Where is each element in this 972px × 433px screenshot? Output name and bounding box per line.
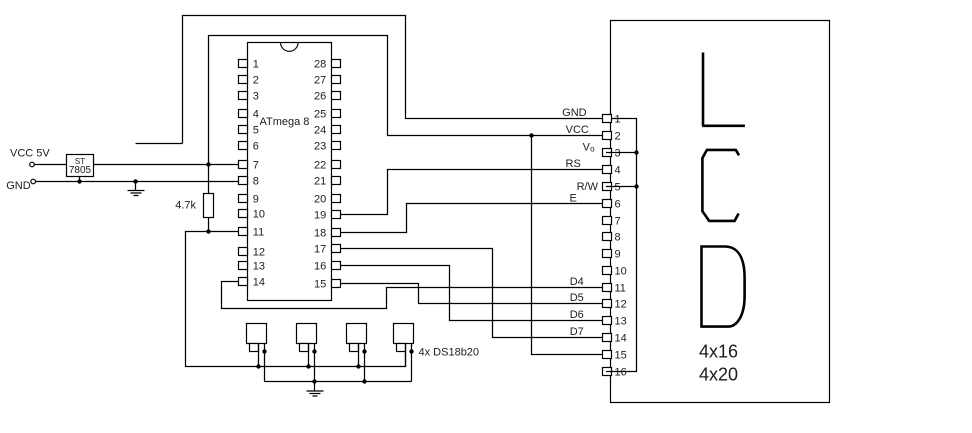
svg-text:16: 16 <box>615 366 627 378</box>
svg-text:6: 6 <box>615 198 621 210</box>
svg-text:28: 28 <box>314 58 326 70</box>
svg-text:9: 9 <box>253 193 259 205</box>
svg-text:21: 21 <box>314 175 326 187</box>
junction gnd rail sensor 2 <box>312 379 316 383</box>
svg-text:20: 20 <box>314 193 326 205</box>
svg-text:7: 7 <box>253 159 259 171</box>
wire pin 18 to LCD E <box>341 204 603 233</box>
svg-text:27: 27 <box>314 74 326 86</box>
wire pin 16 to LCD D6 <box>341 266 603 321</box>
svg-text:10: 10 <box>253 208 265 220</box>
wire pin 11 DQ bus to sensors <box>186 232 406 367</box>
wire VCC riser top rail to LCD pin 2 <box>209 36 603 165</box>
svg-text:14: 14 <box>253 276 265 288</box>
wire pin 14 to LCD D4 <box>222 282 603 309</box>
sensor DS18B20 #1 tab <box>250 344 259 352</box>
svg-text:11: 11 <box>253 226 264 238</box>
svg-text:ATmega 8: ATmega 8 <box>260 116 310 128</box>
svg-text:25: 25 <box>314 108 326 120</box>
svg-text:16: 16 <box>314 260 326 272</box>
junction lcd rail pin 5 <box>634 184 638 188</box>
svg-text:4: 4 <box>253 108 259 120</box>
wire lcd internal gnd rail <box>606 119 637 372</box>
svg-text:24: 24 <box>314 124 326 136</box>
lcd module body <box>611 21 830 403</box>
mcu U1 left pin squares 1-14 <box>239 60 248 286</box>
sensor DS18B20 #4 tab <box>397 344 406 352</box>
svg-text:3: 3 <box>253 90 259 102</box>
wire 7805 ground pin <box>79 177 81 182</box>
svg-text:26: 26 <box>314 90 326 102</box>
junction lcd rail pin 3 <box>634 150 638 154</box>
svg-text:D6: D6 <box>570 309 584 321</box>
junction sensor #3 pin joint <box>362 349 366 353</box>
lcd pin numbers <box>615 113 627 378</box>
svg-text:14: 14 <box>615 332 627 344</box>
lcd letter D <box>700 246 744 327</box>
svg-text:22: 22 <box>314 159 326 171</box>
junction sensor #1 pin joint <box>262 349 266 353</box>
sensor DS18B20 #2 tab <box>300 344 309 352</box>
svg-text:2: 2 <box>615 130 621 142</box>
sensor #1 DQ pin <box>258 344 260 367</box>
svg-text:D5: D5 <box>570 292 584 304</box>
sensor DS18B20 #1 body <box>247 324 267 344</box>
wire 7805 output to pin 7 <box>94 164 239 166</box>
svg-text:VCC 5V: VCC 5V <box>10 148 50 160</box>
ground symbol G1 <box>128 182 145 196</box>
svg-text:D4: D4 <box>570 276 584 288</box>
wire pin 15 to LCD D5 <box>341 284 603 304</box>
mcu U1 left pin numbers <box>253 58 265 288</box>
svg-text:2: 2 <box>253 74 259 86</box>
svg-text:13: 13 <box>253 260 265 272</box>
junction 7805 gnd <box>77 179 81 183</box>
svg-text:4x16: 4x16 <box>699 342 738 362</box>
sensor #4 DQ pin <box>405 344 407 367</box>
svg-text:5: 5 <box>253 124 259 136</box>
terminal VCC 5V <box>30 162 35 167</box>
svg-text:o: o <box>590 145 595 154</box>
svg-text:3: 3 <box>615 147 621 159</box>
mcu U1 ATmega8 body <box>248 43 332 301</box>
wire VCC input to 7805 <box>34 164 66 166</box>
svg-text:12: 12 <box>615 298 627 310</box>
junction sensor #2 pin joint <box>312 349 316 353</box>
svg-text:D7: D7 <box>570 326 584 338</box>
junction sensor #4 pin joint <box>409 349 413 353</box>
svg-text:4x20: 4x20 <box>699 364 738 384</box>
sensor #3 GND pin <box>364 344 366 382</box>
sensor #4 GND pin <box>411 344 413 382</box>
junction DQ rail sensor #2 <box>306 364 310 368</box>
junction gnd riser <box>133 179 137 183</box>
lcd pin squares 1-16 <box>603 115 612 376</box>
wire lcd pin 3 to rail <box>606 152 637 154</box>
svg-text:23: 23 <box>314 140 326 152</box>
wire VCC to LCD pin 15 backlight <box>532 136 603 355</box>
svg-text:E: E <box>570 192 577 204</box>
wire pin 19 to LCD RS <box>341 170 603 215</box>
sensor DS18B20 #3 tab <box>350 344 359 352</box>
svg-text:1: 1 <box>615 113 621 125</box>
svg-text:17: 17 <box>314 243 326 255</box>
svg-text:7: 7 <box>615 215 621 227</box>
lcd letter L <box>702 53 745 126</box>
ground symbol G2 <box>307 382 324 397</box>
svg-text:15: 15 <box>615 349 627 361</box>
regulator U2 7805 body <box>67 155 94 177</box>
mcu U1 right pin numbers <box>314 58 326 290</box>
svg-text:9: 9 <box>615 248 621 260</box>
terminal GND <box>31 179 36 184</box>
svg-text:18: 18 <box>314 227 326 239</box>
wire pin 17 to LCD D7 <box>341 249 603 338</box>
sensor #2 DQ pin <box>308 344 310 367</box>
sensor DS18B20 #4 body <box>394 324 414 344</box>
svg-text:13: 13 <box>615 315 627 327</box>
sensor #3 DQ pin <box>358 344 360 367</box>
junction VCC at LED column <box>529 133 533 137</box>
wire sensors ground rail <box>265 381 412 383</box>
wire lcd pin 5 to rail <box>606 186 637 188</box>
svg-text:12: 12 <box>253 246 265 258</box>
sensor #1 GND pin <box>264 344 266 382</box>
svg-text:7805: 7805 <box>69 165 92 176</box>
svg-text:GND: GND <box>562 107 587 119</box>
junction resistor DQ <box>206 229 210 233</box>
wire GND input to pin 8 <box>36 181 239 183</box>
svg-text:15: 15 <box>314 278 326 290</box>
junction DQ rail sensor #1 <box>256 364 260 368</box>
svg-text:RS: RS <box>566 158 581 170</box>
junction VCC at resistor column <box>206 162 210 166</box>
mcu U1 notch <box>281 43 299 52</box>
svg-text:VCC: VCC <box>566 124 589 136</box>
sensor DS18B20 #2 body <box>297 324 317 344</box>
svg-text:8: 8 <box>615 231 621 243</box>
resistor R1 4.7k body <box>204 194 214 218</box>
junction gnd rail sensor 3 <box>362 379 366 383</box>
mcu U1 right pin squares 28-15 <box>332 60 341 288</box>
svg-text:11: 11 <box>615 282 626 294</box>
svg-text:1: 1 <box>253 58 259 70</box>
svg-text:4.7k: 4.7k <box>175 199 196 211</box>
svg-text:8: 8 <box>253 175 259 187</box>
svg-text:6: 6 <box>253 140 259 152</box>
sensor #2 GND pin <box>314 344 316 382</box>
svg-text:19: 19 <box>314 209 326 221</box>
lcd letter C <box>702 150 739 221</box>
svg-text:4: 4 <box>615 164 621 176</box>
svg-text:GND: GND <box>6 180 31 192</box>
sensor DS18B20 #3 body <box>347 324 367 344</box>
wire GND riser to LCD pin 1 <box>136 16 637 144</box>
svg-text:5: 5 <box>615 181 621 193</box>
wire VCC to resistor top <box>208 165 210 194</box>
wire resistor bottom to DQ line <box>208 218 210 232</box>
svg-text:4x DS18b20: 4x DS18b20 <box>419 347 480 359</box>
svg-text:10: 10 <box>615 265 627 277</box>
svg-text:R/W: R/W <box>577 181 599 193</box>
junction DQ rail sensor #3 <box>356 364 360 368</box>
